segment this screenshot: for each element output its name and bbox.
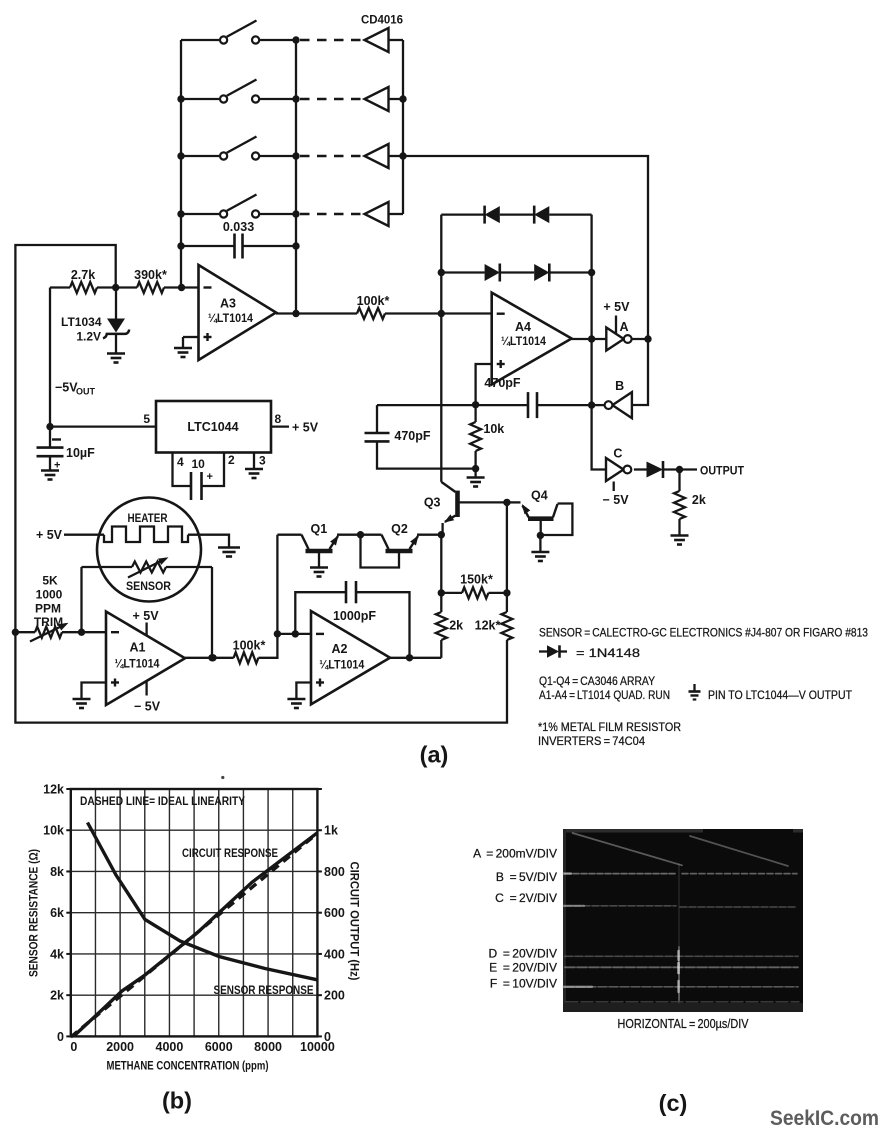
svg-text:A3: A3 xyxy=(220,297,236,311)
svg-text:470pF: 470pF xyxy=(484,376,520,390)
svg-text:¼LT1014: ¼LT1014 xyxy=(208,311,253,325)
svg-text:2.7k: 2.7k xyxy=(71,268,95,282)
label sensor response xyxy=(214,983,314,997)
svg-text:12k*: 12k* xyxy=(475,619,501,633)
svg-text:2: 2 xyxy=(228,453,235,467)
sensor package circle xyxy=(97,498,201,602)
note Q1-Q4 xyxy=(539,674,655,688)
capacitor 470pF vertical xyxy=(365,405,476,469)
svg-text:(b): (b) xyxy=(162,1088,192,1114)
graph axis ticks xyxy=(66,789,322,1036)
svg-text:Q2: Q2 xyxy=(391,522,408,536)
svg-text:10000: 10000 xyxy=(300,1040,335,1054)
op-amp A4 xyxy=(492,293,572,385)
diode D2 1N4148 xyxy=(534,206,549,224)
svg-text:10k: 10k xyxy=(43,824,64,838)
label (a) xyxy=(420,742,449,768)
wire diode row2 seg1 xyxy=(441,271,484,273)
resistor 100k* A3-A4 xyxy=(357,294,390,319)
wire A3 out xyxy=(276,312,357,314)
wire dashed row 3 xyxy=(300,155,362,157)
svg-text:Q1-Q4 = CA3046 ARRAY: Q1-Q4 = CA3046 ARRAY xyxy=(539,674,655,688)
power +5V inverter A xyxy=(603,300,630,334)
capacitor 470pF horizontal xyxy=(377,376,592,418)
svg-text:A1-A4 = LT1014 QUAD. RUN: A1-A4 = LT1014 QUAD. RUN xyxy=(539,688,670,702)
junction dots diode rows xyxy=(438,269,596,276)
ground Q1 xyxy=(310,568,328,577)
wire sensor right drop xyxy=(208,567,215,662)
ground 2k output xyxy=(671,536,689,545)
svg-text:4000: 4000 xyxy=(156,1040,184,1054)
svg-text:LTC1044: LTC1044 xyxy=(187,420,238,434)
svg-text:8k: 8k xyxy=(50,865,64,879)
svg-text:INVERTERS = 74C04: INVERTERS = 74C04 xyxy=(538,734,645,748)
junction dots inverter bus xyxy=(399,95,406,159)
inverter U1 CD4016 driver xyxy=(365,28,404,52)
wire left switch bus xyxy=(180,40,182,288)
wire -5V feed corner xyxy=(15,245,507,723)
transistor Q1 xyxy=(277,522,338,567)
op-amp A1 xyxy=(106,612,185,706)
svg-text:0: 0 xyxy=(70,1040,77,1054)
svg-text:C = 2V/DIV: C = 2V/DIV xyxy=(495,891,557,905)
junction dots left bus xyxy=(177,95,184,249)
wire pin 8 +5V xyxy=(271,412,319,435)
inverter C 74C04 xyxy=(606,447,631,482)
transistor Q2 xyxy=(361,522,419,568)
note diode type xyxy=(576,646,640,660)
svg-text:6000: 6000 xyxy=(205,1040,233,1054)
wire right inverter bus xyxy=(402,40,404,214)
svg-text:E = 20V/DIV: E = 20V/DIV xyxy=(489,961,557,975)
switch S3 xyxy=(181,137,296,160)
ground Q4 xyxy=(531,552,549,561)
junction 10k bottom xyxy=(472,465,479,472)
graph gridlines xyxy=(71,789,318,1036)
svg-text:2k: 2k xyxy=(50,989,64,1003)
diode D1 1N4148 xyxy=(485,206,500,224)
svg-text:6k: 6k xyxy=(50,906,64,920)
svg-text:800: 800 xyxy=(324,865,345,879)
wire C out xyxy=(634,468,647,470)
graph frame xyxy=(71,789,318,1036)
power +5V A1 xyxy=(132,609,159,636)
wire 100k to A2 corner xyxy=(258,535,277,658)
resistor 2k output xyxy=(674,470,706,536)
junction Q3 base node xyxy=(503,499,510,506)
svg-text:100k*: 100k* xyxy=(233,639,266,653)
svg-text:PPM: PPM xyxy=(35,602,61,616)
note 1% metal film xyxy=(538,720,681,734)
svg-text:SENSOR: SENSOR xyxy=(126,579,171,593)
wire Q1 to Q2 xyxy=(337,531,364,538)
svg-text:F = 10V/DIV: F = 10V/DIV xyxy=(490,977,557,991)
wire 0.033 left xyxy=(181,245,235,247)
wire heater to ground xyxy=(188,535,229,547)
scope label C xyxy=(495,891,557,905)
svg-text:Q1: Q1 xyxy=(311,522,328,536)
pin 2 lead xyxy=(202,453,236,487)
junction node zener xyxy=(112,284,119,291)
resistor 150k* xyxy=(441,573,507,599)
ground zener xyxy=(107,354,125,363)
wire 100k to A4 node xyxy=(385,310,445,317)
ground legend symbol xyxy=(689,684,701,700)
note A1-A4 xyxy=(539,688,670,702)
wire Q3 emitter drop xyxy=(438,535,445,597)
svg-text:Q4: Q4 xyxy=(531,489,548,503)
junction trim left xyxy=(12,629,19,636)
wire dashed row 2 xyxy=(300,98,362,100)
svg-text:*1% METAL FILM RESISTOR: *1% METAL FILM RESISTOR xyxy=(538,720,681,734)
transistor Q4 xyxy=(507,489,573,536)
note inverters xyxy=(538,734,645,748)
scope horizontal label xyxy=(618,1017,750,1031)
svg-text:SENSOR RESISTANCE (Ω): SENSOR RESISTANCE (Ω) xyxy=(27,849,41,977)
note pin to ltc1044 xyxy=(708,688,853,702)
zener LT1034 1.2V xyxy=(61,288,129,354)
resistor 12k* xyxy=(475,593,513,640)
svg-text:OUTPUT: OUTPUT xyxy=(700,464,745,478)
wire A2 out xyxy=(390,654,441,661)
svg-text:2k: 2k xyxy=(449,619,463,633)
scope label E xyxy=(489,961,557,975)
svg-text:PIN TO LTC1044—V OUTPUT: PIN TO LTC1044—V OUTPUT xyxy=(708,688,853,702)
switch S1 xyxy=(181,21,296,44)
wire dashed row 1 xyxy=(300,39,362,41)
graph right axis title xyxy=(348,862,362,981)
label (b) xyxy=(162,1088,192,1114)
wire row3 to inverters xyxy=(403,156,648,405)
pin 3 lead xyxy=(254,453,266,469)
svg-text:8000: 8000 xyxy=(254,1040,282,1054)
graph right axis labels xyxy=(324,824,345,1044)
ground heater xyxy=(218,548,240,557)
svg-text:(a): (a) xyxy=(420,742,449,768)
svg-text:CD4016: CD4016 xyxy=(361,13,403,27)
svg-text:+ 5V: + 5V xyxy=(292,421,319,435)
svg-text:+ 5V: + 5V xyxy=(603,300,630,314)
diode D5 1N4148 output xyxy=(647,461,664,478)
svg-text:1000pF: 1000pF xyxy=(333,609,376,623)
svg-text:390k*: 390k* xyxy=(134,268,167,282)
svg-text:600: 600 xyxy=(324,906,345,920)
ground A1 xyxy=(73,699,91,708)
svg-text:10: 10 xyxy=(192,457,206,471)
svg-text:¼LT1014: ¼LT1014 xyxy=(319,658,364,672)
junction A2 minus xyxy=(274,630,281,637)
wire -5V left drop xyxy=(49,288,51,427)
svg-text:¼LT1014: ¼LT1014 xyxy=(501,334,546,348)
svg-text:100k*: 100k* xyxy=(357,294,390,308)
wire 390k to A3 xyxy=(164,284,199,291)
wire diode row1 seg1 xyxy=(441,213,484,215)
inverter U4 CD4016 driver xyxy=(365,202,404,226)
svg-text:METHANE CONCENTRATION (ppm): METHANE CONCENTRATION (ppm) xyxy=(107,1059,269,1073)
svg-text:2k: 2k xyxy=(692,493,706,507)
resistor 100k* A1-A2 xyxy=(233,639,266,664)
svg-text:1k: 1k xyxy=(324,824,338,838)
diode D3 1N4148 xyxy=(485,264,500,282)
wire Q4 ground lead xyxy=(539,535,541,551)
power -5V A1 xyxy=(134,681,161,714)
svg-text:0: 0 xyxy=(57,1030,64,1044)
inverter A 74C04 xyxy=(606,320,631,351)
wire A3 plus ground lead xyxy=(183,337,199,348)
resistor 5K trim xyxy=(15,623,106,642)
svg-text:= 1N4148: = 1N4148 xyxy=(576,646,640,660)
inverter U3 CD4016 driver xyxy=(365,144,404,168)
inverter U2 CD4016 driver xyxy=(365,87,404,111)
curve ideal linearity dashed xyxy=(71,833,317,1037)
svg-text:A2: A2 xyxy=(332,642,348,656)
junction Q4 base xyxy=(537,532,544,539)
wire diode row2 seg3 xyxy=(549,271,591,273)
resistor 2.7k xyxy=(50,268,97,293)
IC LTC1044 xyxy=(156,401,271,453)
scope label B xyxy=(496,870,557,884)
svg-text:5K: 5K xyxy=(42,574,58,588)
oscilloscope photo xyxy=(563,829,803,1012)
svg-text:400: 400 xyxy=(324,947,345,961)
ground A2 xyxy=(287,699,305,708)
svg-text:+ 5V: + 5V xyxy=(36,528,63,542)
note sensor source xyxy=(539,626,868,640)
stray mark xyxy=(221,776,224,779)
wire A1 plus ground xyxy=(82,683,107,699)
op-amp A2 xyxy=(311,611,390,704)
svg-text:0.033: 0.033 xyxy=(223,220,254,234)
diode D4 1N4148 xyxy=(534,264,549,282)
svg-text:A = 200mV/DIV: A = 200mV/DIV xyxy=(473,847,557,861)
scope label A xyxy=(473,847,557,861)
wire diode row1 seg3 xyxy=(549,213,591,215)
svg-text:Q3: Q3 xyxy=(424,496,441,510)
wire A1 out xyxy=(185,654,234,661)
wire A4 out xyxy=(572,335,607,342)
resistor 2k mid xyxy=(436,593,463,658)
svg-text:HORIZONTAL = 200µs/DIV: HORIZONTAL = 200µs/DIV xyxy=(618,1017,750,1031)
label 5K 1000 PPM TRIM xyxy=(34,574,63,630)
wire A4 plus lead xyxy=(472,364,492,408)
svg-text:− 5V: − 5V xyxy=(134,700,161,714)
wire B out xyxy=(588,401,605,408)
svg-text:CIRCUIT RESPONSE: CIRCUIT RESPONSE xyxy=(182,846,278,860)
svg-text:8: 8 xyxy=(275,412,282,426)
svg-text:150k*: 150k* xyxy=(460,573,493,587)
svg-text:10µF: 10µF xyxy=(66,446,95,460)
op-amp A3 xyxy=(199,265,277,360)
wire diode to output xyxy=(663,466,697,473)
svg-text:SENSOR = CALECTRO-GC ELECTRONI: SENSOR = CALECTRO-GC ELECTRONICS #J4-807… xyxy=(539,626,868,640)
curve sensor response xyxy=(88,823,318,980)
ground A3 xyxy=(174,348,192,357)
inverter B 74C04 xyxy=(605,379,632,418)
sensor element xyxy=(82,557,213,593)
wire A2 minus input xyxy=(277,630,311,637)
svg-text:HEATER: HEATER xyxy=(128,511,168,525)
resistor 10k xyxy=(470,405,504,469)
svg-text:A: A xyxy=(619,320,628,334)
wire dashed row 4 xyxy=(300,213,362,215)
svg-text:4: 4 xyxy=(177,455,184,469)
svg-text:5: 5 xyxy=(143,412,150,426)
curve circuit response xyxy=(74,833,317,1036)
watermark SeekIC.com xyxy=(770,1107,879,1130)
scope label F xyxy=(490,977,557,991)
junction dots mid bus xyxy=(292,36,299,317)
graph x axis title xyxy=(107,1059,269,1073)
wire Q2 to Q3 node xyxy=(417,531,445,538)
switch S4 xyxy=(181,195,296,218)
wire mid switch bus xyxy=(295,40,297,314)
svg-text:A4: A4 xyxy=(515,320,531,334)
svg-text:470pF: 470pF xyxy=(394,429,430,443)
wire A2 plus ground xyxy=(296,683,311,699)
wire diode row1 seg2 xyxy=(500,213,534,215)
svg-text:¼LT1014: ¼LT1014 xyxy=(115,657,160,671)
label circuit response xyxy=(182,846,278,860)
svg-text:+: + xyxy=(207,471,213,483)
svg-text:B = 5V/DIV: B = 5V/DIV xyxy=(496,870,557,884)
wire pin 5 xyxy=(50,412,156,427)
ground 10k xyxy=(467,469,485,487)
transistor Q3 xyxy=(424,482,507,535)
ground pin 3 xyxy=(245,469,263,478)
label -5Vout xyxy=(55,381,96,397)
capacitor 10uF reservoir xyxy=(37,427,96,472)
svg-text:A1: A1 xyxy=(130,641,146,655)
diode legend symbol xyxy=(539,645,567,657)
capacitor 10uF pins xyxy=(191,457,213,500)
resistor 390k* xyxy=(134,268,167,293)
svg-text:1.2V: 1.2V xyxy=(76,330,101,344)
junction -5V node xyxy=(46,423,53,430)
capacitor 0.033 xyxy=(223,220,254,259)
svg-text:2000: 2000 xyxy=(106,1040,134,1054)
switch S2 xyxy=(181,80,296,103)
svg-text:B: B xyxy=(615,379,624,393)
wire diode row2 seg2 xyxy=(500,271,534,273)
graph legend dashed xyxy=(80,794,245,808)
svg-text:4k: 4k xyxy=(50,947,64,961)
junction 12k top xyxy=(503,589,510,596)
svg-text:LT1034: LT1034 xyxy=(61,315,102,329)
capacitor 1000pF xyxy=(295,581,409,658)
label CD4016 xyxy=(361,13,403,27)
power -5V inverter C xyxy=(602,482,629,508)
svg-text:CIRCUIT OUTPUT (Hz): CIRCUIT OUTPUT (Hz) xyxy=(348,862,362,981)
svg-text:C: C xyxy=(613,447,622,461)
svg-text:−5V: −5V xyxy=(55,381,78,395)
svg-text:D = 20V/DIV: D = 20V/DIV xyxy=(488,947,557,961)
wire inverter A out xyxy=(632,335,652,342)
svg-text:3: 3 xyxy=(259,454,266,468)
heater element xyxy=(104,511,188,542)
graph x axis labels xyxy=(70,1040,335,1054)
label OUTPUT xyxy=(700,464,745,478)
wire heater feed xyxy=(64,534,104,536)
svg-text:12k: 12k xyxy=(43,783,64,797)
label +5V heater xyxy=(36,528,63,542)
wire A4 minus input xyxy=(441,312,491,314)
graph left axis labels xyxy=(43,783,64,1044)
pin 4 lead xyxy=(173,453,192,487)
wire diode loop left xyxy=(440,215,442,482)
svg-text:(c): (c) xyxy=(659,1090,688,1116)
svg-text:SENSOR RESPONSE: SENSOR RESPONSE xyxy=(214,983,314,997)
svg-text:OUT: OUT xyxy=(76,387,96,397)
wire diode loop right xyxy=(592,215,606,470)
svg-text:1000: 1000 xyxy=(36,588,63,602)
wire Q3 node drop xyxy=(506,502,508,593)
svg-text:200: 200 xyxy=(324,989,345,1003)
svg-text:− 5V: − 5V xyxy=(602,493,629,507)
graph left axis title xyxy=(27,849,41,977)
scope label D xyxy=(488,947,557,961)
wire sensor left drop xyxy=(78,567,85,636)
svg-text:+ 5V: + 5V xyxy=(132,609,159,623)
ground 10uF xyxy=(41,471,59,480)
wire 2.7k to 390k xyxy=(97,286,137,288)
label (c) xyxy=(659,1090,688,1116)
svg-text:10k: 10k xyxy=(483,422,504,436)
wire 0.033 right xyxy=(243,245,297,247)
svg-text:DASHED LINE= IDEAL LINEARITY: DASHED LINE= IDEAL LINEARITY xyxy=(80,794,245,808)
svg-text:SeekIC.com: SeekIC.com xyxy=(770,1107,879,1130)
